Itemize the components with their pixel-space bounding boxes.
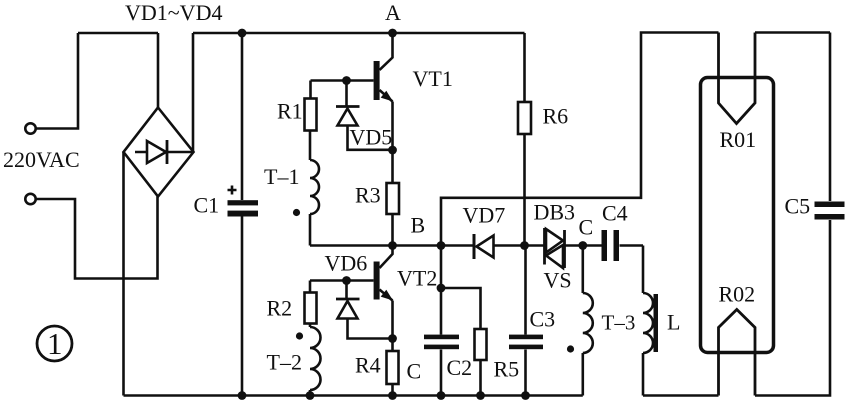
svg-text:R3: R3 — [355, 183, 381, 208]
svg-text:VT2: VT2 — [397, 266, 437, 291]
svg-text:C4: C4 — [602, 201, 628, 226]
svg-text:R4: R4 — [355, 353, 381, 378]
svg-text:VD6: VD6 — [325, 251, 368, 276]
svg-text:T–1: T–1 — [264, 164, 299, 189]
svg-text:VD5: VD5 — [350, 125, 393, 150]
svg-text:R1: R1 — [277, 99, 303, 124]
svg-text:220VAC: 220VAC — [3, 147, 80, 172]
svg-text:R2: R2 — [267, 296, 293, 321]
svg-text:VD1~VD4: VD1~VD4 — [125, 0, 222, 25]
svg-text:T–3: T–3 — [602, 311, 636, 335]
svg-text:1: 1 — [47, 326, 63, 361]
svg-text:R6: R6 — [543, 104, 569, 129]
svg-text:C2: C2 — [447, 355, 473, 380]
svg-text:DB3: DB3 — [534, 200, 576, 225]
svg-text:VT1: VT1 — [413, 66, 453, 91]
svg-text:C1: C1 — [194, 193, 220, 218]
svg-text:A: A — [385, 0, 401, 25]
svg-text:B: B — [411, 213, 426, 238]
svg-text:C5: C5 — [785, 194, 811, 219]
svg-text:R01: R01 — [720, 127, 757, 152]
svg-text:VS: VS — [544, 268, 572, 293]
svg-text:C3: C3 — [530, 307, 556, 332]
svg-text:L: L — [667, 310, 680, 335]
svg-text:T–2: T–2 — [267, 350, 302, 375]
svg-text:R02: R02 — [719, 282, 756, 307]
svg-text:C: C — [407, 359, 422, 384]
svg-text:R5: R5 — [494, 357, 520, 382]
svg-text:C: C — [579, 215, 594, 240]
svg-text:VD7: VD7 — [463, 203, 506, 228]
